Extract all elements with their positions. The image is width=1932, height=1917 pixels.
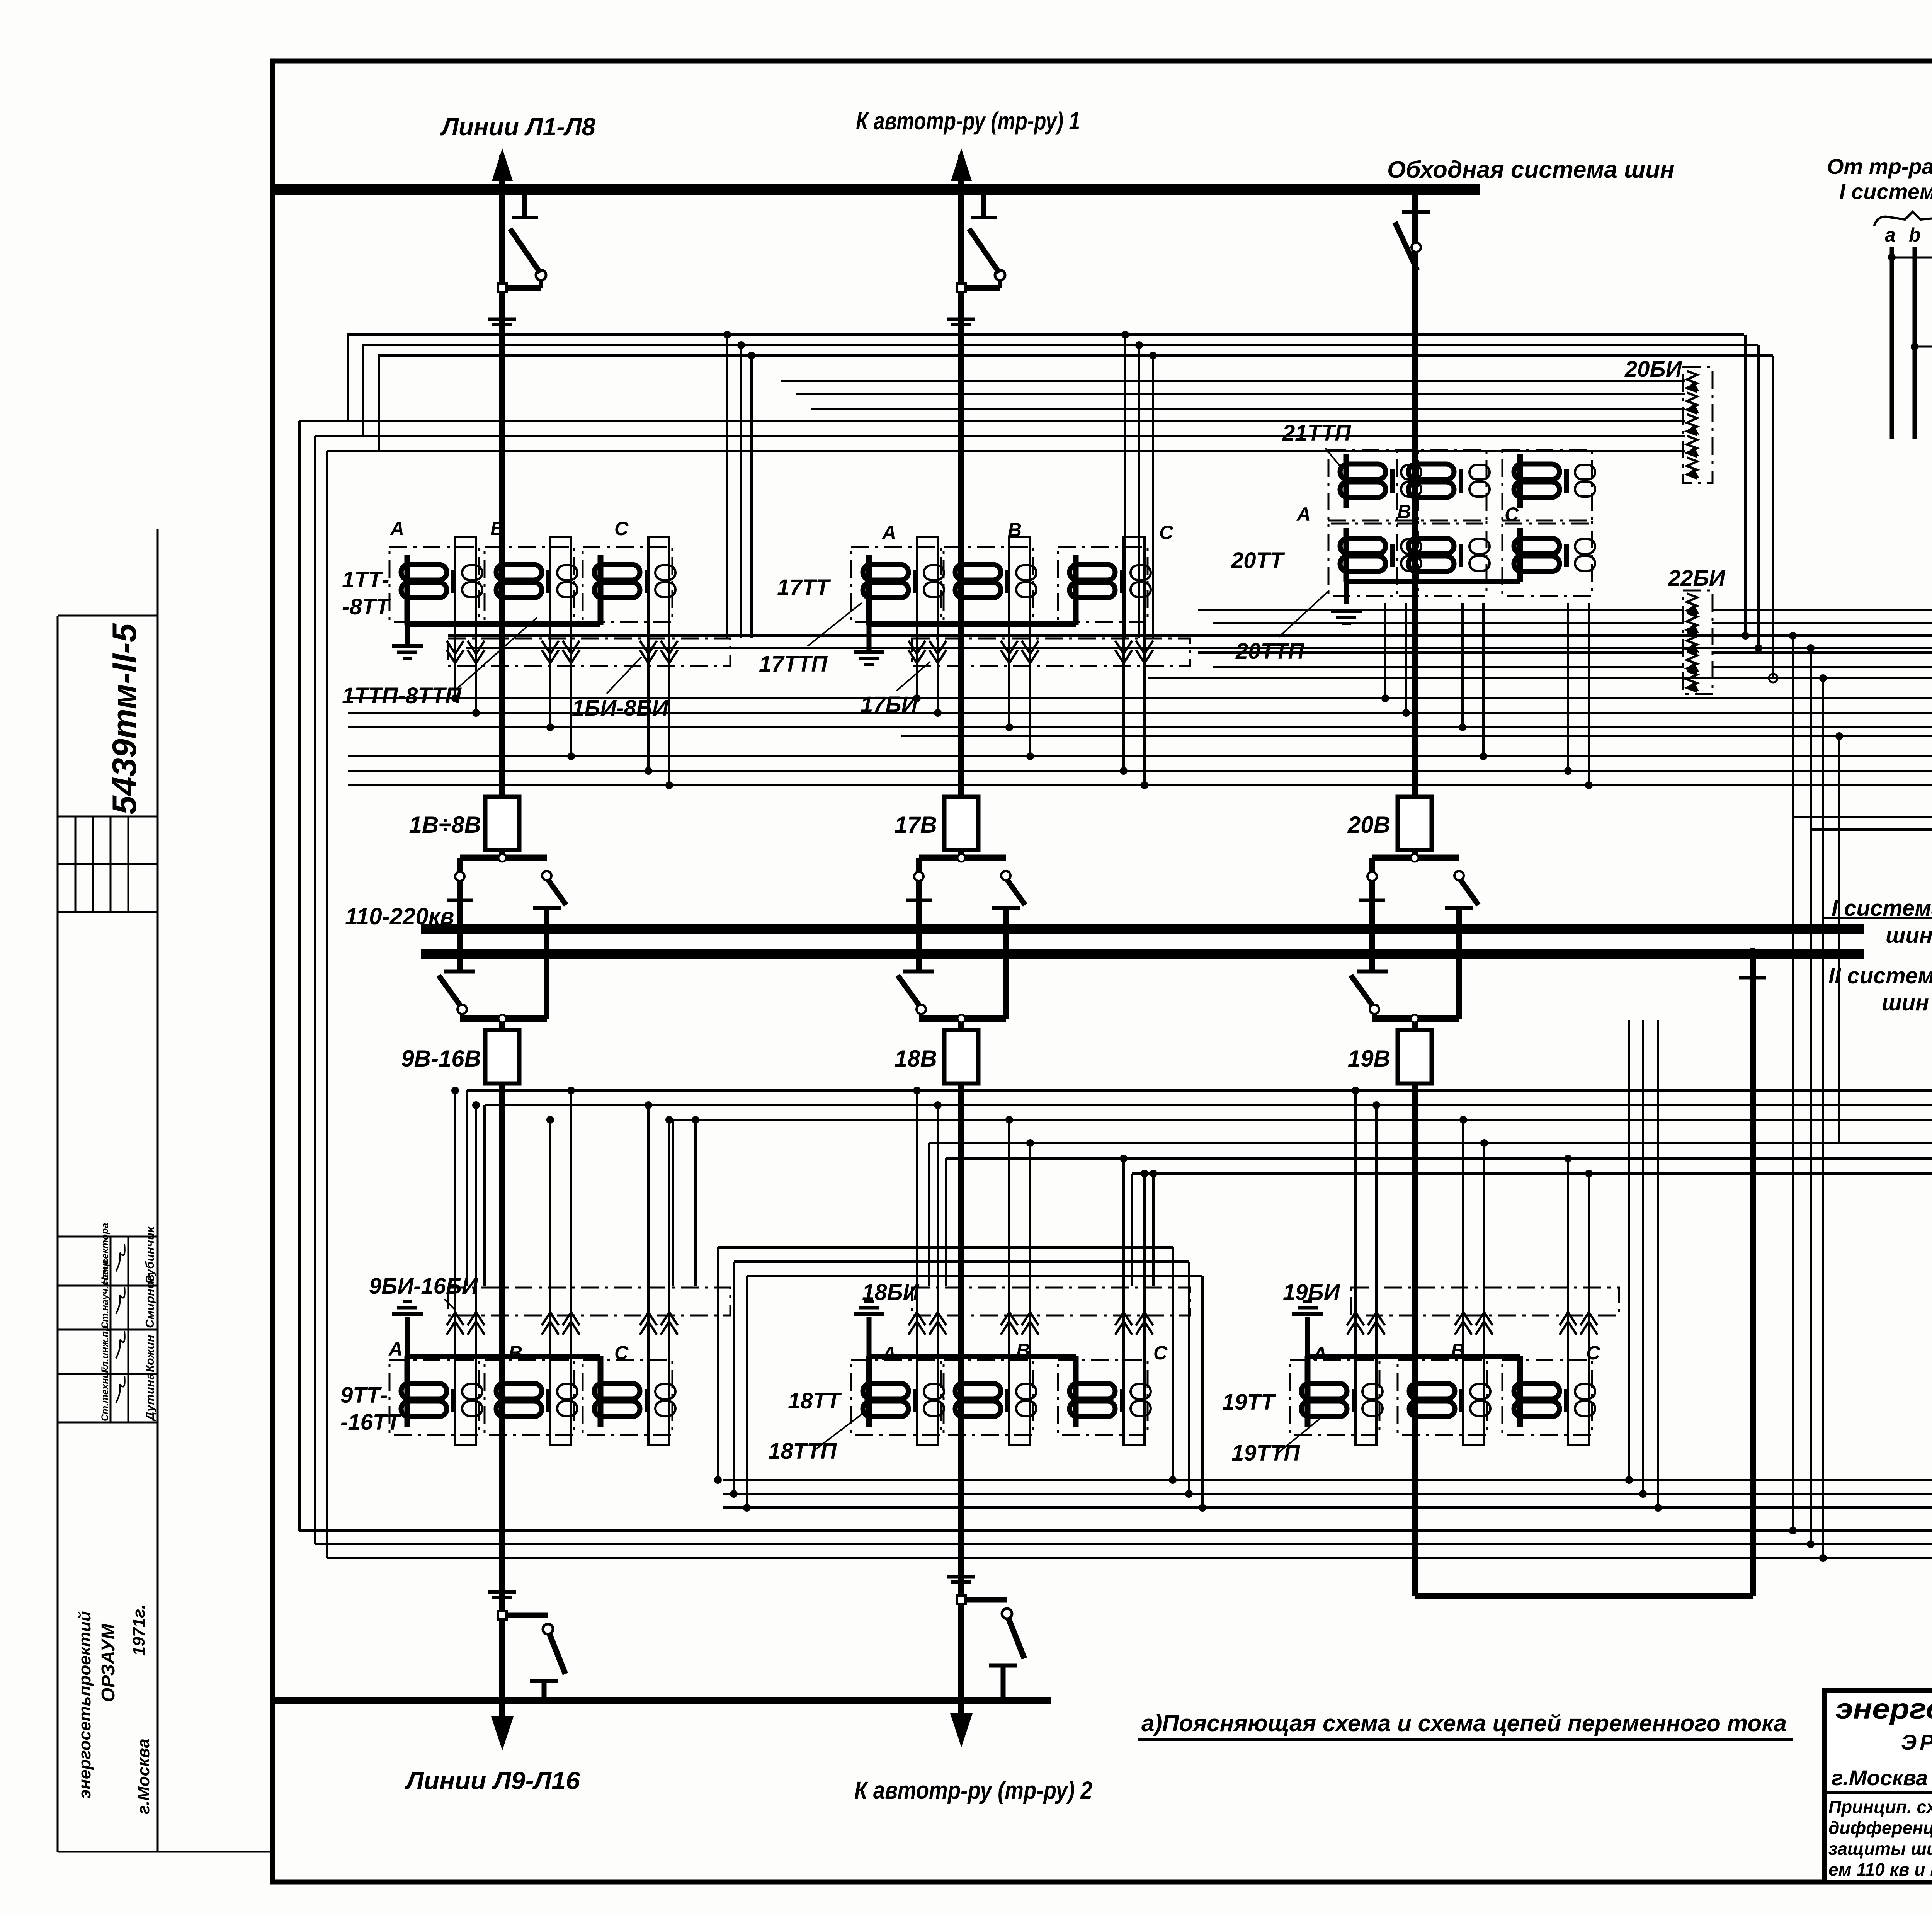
secondary drop wires from strips to highways xyxy=(454,670,456,698)
svg-text:А: А xyxy=(389,518,404,539)
svg-text:А: А xyxy=(1296,503,1311,525)
link bar group1 xyxy=(407,621,600,627)
svg-text:Обходная система шин: Обходная система шин xyxy=(1387,156,1675,183)
breaker 9В-16В xyxy=(485,1030,519,1084)
svg-text:Ст.науч.сотр.: Ст.науч.сотр. xyxy=(100,1257,111,1329)
svg-text:энергосетьпроектий: энергосетьпроектий xyxy=(75,1611,94,1799)
КРТ row 3-4 entry wires xyxy=(1793,801,1932,817)
top bus / обходная система шин xyxy=(272,184,1480,195)
CT group2-A xyxy=(851,547,941,622)
wire bundle: upper triple highway xyxy=(348,335,1744,421)
svg-text:17ТТ: 17ТТ xyxy=(777,575,831,600)
drop verticals to bottom highway xyxy=(1628,1020,1630,1480)
six-line middle highway above buses xyxy=(348,697,1932,699)
bottom six-line highway xyxy=(723,1204,1932,1480)
svg-text:22БИ: 22БИ xyxy=(1668,566,1726,591)
svg-text:ем 110 кв и выше: ем 110 кв и выше xyxy=(1828,1859,1932,1880)
CT group1b xyxy=(583,1360,672,1435)
breaker 17В xyxy=(944,797,978,850)
22БИ input wires xyxy=(1198,609,1684,611)
svg-text:18БИ: 18БИ xyxy=(862,1280,920,1305)
bus II система шин xyxy=(421,949,1864,959)
CT group3b xyxy=(1290,1360,1379,1435)
CT group1-C xyxy=(583,547,672,622)
svg-text:А: А xyxy=(881,522,896,543)
feeder К автотр-ру 1 / 2 xyxy=(958,155,964,861)
svg-text:17ТТП: 17ТТП xyxy=(759,651,828,677)
breaker 20В xyxy=(1398,797,1432,850)
CT group3u xyxy=(1502,450,1592,524)
CT group3l xyxy=(1397,520,1486,596)
svg-text:1ТТ-: 1ТТ- xyxy=(342,567,389,592)
CT group1-B xyxy=(485,547,574,622)
22БИ block xyxy=(1683,590,1713,694)
svg-text:г.Москва: г.Москва xyxy=(134,1738,153,1814)
nested corner wires below CT groups to bottom highway xyxy=(718,1246,1173,1249)
svg-text:Линии Л9-Л16: Линии Л9-Л16 xyxy=(405,1767,580,1795)
20БИ block xyxy=(1683,367,1713,483)
svg-text:энергосетьпроект: энергосетьпроект xyxy=(1835,1693,1932,1725)
disconnector обходного выключателя xyxy=(1402,210,1430,214)
left margin stamp table xyxy=(58,529,272,1852)
svg-text:18ТТ: 18ТТ xyxy=(788,1388,842,1414)
svg-text:К автотр-ру (тр-ру) 1: К автотр-ру (тр-ру) 1 xyxy=(856,107,1080,135)
svg-text:18ТТП: 18ТТП xyxy=(768,1439,837,1464)
feeder line Л1-Л8 / Л9-Л16 xyxy=(499,155,505,861)
svg-text:Принцип. схемы и расчеты: Принцип. схемы и расчеты xyxy=(1828,1797,1932,1817)
svg-text:г.Москва: г.Москва xyxy=(1832,1766,1928,1790)
svg-text:9В-16В: 9В-16В xyxy=(401,1046,481,1072)
CT group2b xyxy=(851,1360,941,1435)
svg-text:С: С xyxy=(614,518,629,539)
svg-text:От тр-ра напряжения: От тр-ра напряжения xyxy=(1827,154,1932,179)
svg-text:19ТТ: 19ТТ xyxy=(1222,1390,1276,1415)
CT group1-A xyxy=(389,547,479,622)
svg-text:дифференциально-тормозной: дифференциально-тормозной xyxy=(1828,1818,1932,1838)
svg-text:В: В xyxy=(1397,501,1411,522)
svg-text:С: С xyxy=(1159,522,1173,543)
line isolator ticks xyxy=(488,318,516,321)
svg-text:а)Поясняющая схема и схема цеп: а)Поясняющая схема и схема цепей перемен… xyxy=(1141,1710,1787,1736)
svg-text:20БИ: 20БИ xyxy=(1624,357,1682,382)
CT group3l xyxy=(1502,520,1592,596)
svg-text:С: С xyxy=(1505,503,1519,525)
disconnector at top bus x=1300 xyxy=(522,193,527,216)
svg-text:ЭРЗАУМ: ЭРЗАУМ xyxy=(1901,1730,1932,1754)
svg-text:1971г.: 1971г. xyxy=(129,1604,148,1656)
long verticals crossing buses xyxy=(1792,636,1794,1531)
CT group1b xyxy=(389,1360,479,1435)
svg-text:1ТТП-8ТТП: 1ТТП-8ТТП xyxy=(342,683,462,708)
svg-text:Линии Л1-Л8: Линии Л1-Л8 xyxy=(440,113,596,141)
svg-text:С: С xyxy=(614,1342,629,1364)
bus selector disconnectors x=3661 xyxy=(1372,855,1459,861)
svg-text:Дутина: Дутина xyxy=(143,1373,156,1422)
verticals from 17ТТ secondaries down xyxy=(726,335,728,638)
bus selector disconnectors x=2488 xyxy=(919,855,1006,861)
CT group3b xyxy=(1398,1360,1487,1435)
breaker 19В xyxy=(1398,1030,1432,1084)
disconnector at top bus x=2488 xyxy=(981,193,986,216)
wire bundle: nested rectangles top-left xyxy=(299,420,1685,422)
svg-text:К автотр-ру (тр-ру) 2: К автотр-ру (тр-ру) 2 xyxy=(854,1776,1092,1804)
svg-text:18В: 18В xyxy=(895,1046,937,1072)
svg-text:19БИ: 19БИ xyxy=(1283,1280,1340,1305)
20БИ upper input wires xyxy=(781,380,1685,382)
long highways to КРТ rows 1-2 xyxy=(448,614,1932,636)
svg-text:110-220кв: 110-220кв xyxy=(345,903,454,929)
CT group2b xyxy=(944,1360,1033,1435)
svg-text:5439тм-II-5: 5439тм-II-5 xyxy=(105,623,143,815)
svg-text:9БИ-16БИ: 9БИ-16БИ xyxy=(369,1274,478,1299)
svg-text:II система: II система xyxy=(1828,963,1932,988)
svg-text:Кожин: Кожин xyxy=(143,1335,156,1372)
svg-text:В: В xyxy=(509,1342,522,1364)
svg-text:20ТТ: 20ТТ xyxy=(1231,548,1285,573)
CT group3u xyxy=(1397,450,1486,524)
svg-text:-8ТТ: -8ТТ xyxy=(342,594,391,619)
svg-text:В: В xyxy=(490,518,504,539)
CT group2-C xyxy=(1058,547,1148,622)
bottom disconnector x=1300 xyxy=(502,1613,548,1618)
svg-text:С: С xyxy=(1586,1342,1600,1364)
svg-text:a: a xyxy=(1885,224,1896,246)
svg-text:21ТТП: 21ТТП xyxy=(1282,420,1351,446)
breaker 1В÷8В xyxy=(485,797,519,850)
svg-text:20ТТП: 20ТТП xyxy=(1235,639,1304,664)
title block xyxy=(1825,1691,1932,1882)
bus selector disconnectors x=1300 xyxy=(460,855,547,861)
svg-text:шин: шин xyxy=(1882,990,1929,1015)
svg-text:1В÷8В: 1В÷8В xyxy=(409,812,481,838)
feeder обходной выключатель + loop xyxy=(1412,189,1418,861)
CT group2b xyxy=(1058,1360,1148,1435)
svg-text:Гл.инж.пр: Гл.инж.пр xyxy=(100,1325,111,1373)
bottom disconnector x=2488 xyxy=(961,1597,1007,1603)
ground group1 xyxy=(392,646,423,658)
svg-text:Смирнов: Смирнов xyxy=(143,1274,156,1328)
CT group2-B xyxy=(944,547,1033,622)
breaker 18В xyxy=(944,1030,978,1084)
svg-text:защиты шин напряжени-: защиты шин напряжени- xyxy=(1828,1839,1932,1859)
CT group3b xyxy=(1502,1360,1592,1435)
svg-text:С: С xyxy=(1153,1342,1168,1364)
svg-text:19ТТП: 19ТТП xyxy=(1231,1441,1300,1466)
bus I система шин xyxy=(421,924,1864,934)
bottom link wire xyxy=(275,1697,1051,1704)
svg-text:19В: 19В xyxy=(1348,1046,1390,1072)
svg-text:-16ТТ: -16ТТ xyxy=(340,1410,402,1435)
БИ strip 1БИ-8БИ xyxy=(448,638,730,666)
six-line lower highway below buses xyxy=(467,1090,1932,1286)
svg-text:9ТТ-: 9ТТ- xyxy=(340,1383,388,1408)
svg-text:В: В xyxy=(1008,519,1022,541)
svg-text:А: А xyxy=(388,1338,403,1360)
svg-text:17В: 17В xyxy=(895,812,937,838)
svg-text:20В: 20В xyxy=(1347,812,1390,838)
svg-text:b: b xyxy=(1909,224,1921,246)
svg-text:шин: шин xyxy=(1886,923,1932,948)
svg-text:Ст.техник: Ст.техник xyxy=(100,1367,111,1421)
CT group3u xyxy=(1328,450,1418,524)
svg-text:I системы шин: I системы шин xyxy=(1839,179,1932,204)
CT group3l xyxy=(1328,520,1418,596)
svg-text:ОРЗАУМ: ОРЗАУМ xyxy=(98,1623,119,1702)
CT group1b xyxy=(485,1360,574,1435)
